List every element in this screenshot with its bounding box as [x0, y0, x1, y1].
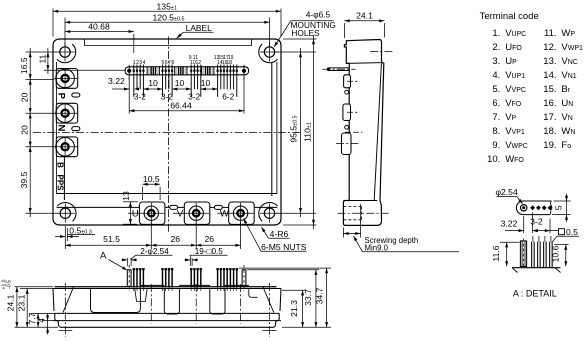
signal pin slot [125, 67, 249, 75]
top view bottom shelf upper line [57, 193, 278, 195]
svg-text:φ2.54: φ2.54 [495, 187, 518, 197]
svg-text:2.: 2. [492, 42, 500, 53]
svg-text:4-φ6.5: 4-φ6.5 [306, 10, 331, 20]
mounting hole top-left [60, 47, 70, 57]
label square 0.5 with leader [559, 229, 565, 235]
side view terminal N bump [343, 104, 351, 121]
detail section square pins [531, 242, 533, 268]
front view round pin 20 [126, 270, 128, 287]
round pin 20 (left end) [127, 69, 131, 73]
svg-text:24.1: 24.1 [6, 294, 16, 311]
round pin 21 (right end) [242, 69, 246, 73]
tab between P and N [72, 93, 80, 97]
side view small circle between P and N [345, 90, 349, 94]
svg-text:51.5: 51.5 [103, 234, 120, 244]
dimension 24.1 side view depth [343, 23, 345, 38]
svg-text:0.5: 0.5 [566, 227, 578, 237]
dimension 51.5 [150, 222, 152, 249]
svg-text:12.: 12. [543, 42, 556, 53]
dimension 10 gap 2 [172, 88, 191, 90]
detail surface line with break marks [512, 267, 561, 269]
front view dimension 24.1 with tolerance [15, 286, 54, 288]
svg-text:10: 10 [201, 78, 211, 88]
dimension 11 pin row offset [44, 69, 125, 71]
side view screw centerline [338, 212, 392, 214]
mounting hole bottom-right [264, 208, 274, 218]
front view dimension 4 [42, 320, 53, 322]
svg-text:11.: 11. [544, 28, 557, 39]
horizontal centerline of module [33, 132, 301, 134]
svg-text:14.: 14. [543, 70, 556, 81]
top view module body outline [53, 39, 281, 225]
dimension 66.44 pin row span [128, 77, 130, 114]
svg-text:10: 10 [175, 78, 185, 88]
svg-text:PPS: PPS [56, 174, 65, 191]
front view round pin 21 [241, 270, 243, 287]
mounting lobe top-right [259, 44, 278, 63]
front view pin tower group 1 [135, 289, 148, 302]
side view terminal B bump [342, 133, 352, 155]
svg-text:11: 11 [38, 54, 48, 63]
front view centerline mounting hole right [269, 283, 271, 337]
detail dimension 10.6 [554, 244, 569, 246]
svg-text:2-φ2.54: 2-φ2.54 [140, 247, 169, 256]
svg-text:6-2: 6-2 [222, 92, 234, 102]
front view pocket 3 [210, 289, 225, 315]
side view hidden screw hole [343, 206, 361, 208]
detail round pin hole [521, 205, 527, 211]
front view dimension 34.7 [239, 267, 331, 269]
left chain extension lines [26, 51, 58, 53]
front view second top line [53, 288, 281, 290]
svg-text:3-2: 3-2 [134, 92, 146, 102]
svg-text:19.: 19. [543, 140, 556, 151]
svg-text:4: 4 [143, 60, 146, 66]
svg-text:Terminal code: Terminal code [480, 11, 539, 22]
dimension 13 terminal height [123, 201, 138, 203]
svg-text:21.3: 21.3 [289, 300, 299, 317]
svg-text:1.: 1. [492, 28, 500, 39]
svg-text:66.44: 66.44 [170, 100, 192, 110]
side view inner wall line [374, 62, 381, 201]
svg-text:33.7: 33.7 [303, 289, 313, 306]
mounting hole top-right [264, 47, 274, 57]
round pin centerline verticals [128, 65, 130, 81]
terminal P block [56, 69, 77, 89]
svg-text:16.: 16. [543, 98, 556, 109]
svg-text:-0.5: -0.5 [7, 280, 13, 289]
svg-text:26: 26 [205, 234, 215, 244]
front view centerline V [195, 284, 197, 324]
detail slot break squiggle [550, 201, 552, 215]
svg-text:24.1: 24.1 [356, 10, 373, 20]
svg-text:6-M5 NUTS: 6-M5 NUTS [261, 242, 307, 252]
side view base block top line [343, 200, 377, 202]
mounting lobe top-left [57, 44, 76, 63]
side view pin centerline [323, 68, 356, 70]
svg-text:3-2: 3-2 [530, 216, 543, 226]
front view dimension 7.7 [31, 312, 55, 314]
mounting lobe bottom-left [57, 202, 76, 221]
top view left rail line below terminal B [63, 157, 65, 200]
detail slot outline with break [516, 201, 551, 215]
svg-text:23.1: 23.1 [16, 294, 26, 311]
detail dimension 11.6 [500, 241, 520, 243]
svg-text:HOLES: HOLES [291, 28, 320, 38]
front view dimension 23.1 [20, 288, 53, 290]
dimension 40.68 hole to pin1 [133, 34, 135, 53]
front view left cap draft line [63, 287, 74, 313]
dimension 26 U-V [195, 222, 197, 249]
svg-text:LABEL: LABEL [186, 23, 212, 33]
terminal W block [229, 202, 255, 224]
terminal N block [56, 103, 77, 123]
front view right bottom extension [282, 326, 331, 328]
dimension 110 +/-1 overall height [283, 38, 317, 40]
side view signal pin profile [328, 67, 350, 69]
svg-text:12: 12 [196, 60, 202, 66]
front view top surface line [55, 286, 277, 288]
svg-text:3.22: 3.22 [501, 219, 518, 229]
svg-text:P: P [56, 93, 67, 100]
svg-text:4.: 4. [492, 70, 500, 81]
svg-text:10: 10 [148, 78, 158, 88]
dimension 3.22 pin pitch [112, 88, 129, 90]
side view centerline tick at mounting hole row [370, 51, 393, 53]
front view dimension 21.3 [282, 289, 306, 291]
svg-text:3.22: 3.22 [108, 76, 125, 86]
svg-text:13: 13 [121, 191, 131, 201]
svg-text:11.6: 11.6 [491, 245, 501, 261]
front view mid body line [55, 312, 280, 314]
signal pins 1-19 [133, 65, 135, 97]
svg-text:N: N [56, 125, 67, 132]
svg-text:8: 8 [171, 60, 174, 66]
svg-text:8.: 8. [492, 126, 500, 137]
svg-text:9.: 9. [492, 140, 500, 151]
connector key block 1 [147, 67, 159, 75]
front view terminal bump W [225, 285, 249, 286]
side view centerline tick at module middle [345, 131, 363, 133]
svg-text:10.6: 10.6 [551, 245, 561, 262]
side view lid bottom line [346, 62, 380, 65]
dimension 10 gap 1 [143, 88, 162, 90]
top view inner rim right [276, 62, 278, 194]
dimension 135 +/-1 overall width [52, 9, 54, 37]
detail dimension 5 [554, 200, 571, 202]
dimension 10.5 terminal width [142, 187, 144, 200]
svg-text:4: 4 [37, 318, 47, 323]
svg-text:19-□0.5: 19-□0.5 [195, 247, 224, 256]
svg-text:V: V [177, 209, 184, 220]
front view square pins [133, 268, 135, 287]
detail square pins as diamonds [530, 205, 535, 210]
svg-text:20: 20 [20, 93, 30, 103]
tab between V and W [214, 205, 222, 209]
left dimension chain line [29, 48, 31, 217]
svg-text:3.: 3. [492, 56, 500, 67]
front view terminal bump V [179, 285, 209, 286]
tab between U and V [170, 205, 178, 209]
svg-text:A : DETAIL: A : DETAIL [513, 288, 557, 298]
svg-text:13.: 13. [543, 56, 556, 67]
front view baseplate outline [55, 313, 279, 327]
terminal B block [56, 137, 77, 157]
front view base step line [53, 320, 281, 322]
front view pocket 2 [164, 289, 179, 315]
front view centerline mounting hole left [64, 283, 66, 337]
svg-text:18.: 18. [543, 126, 556, 137]
top view bottom shelf lower line [57, 206, 278, 208]
svg-text:20: 20 [20, 125, 30, 135]
side view terminal P bump [344, 75, 351, 88]
top view rim step left [83, 39, 85, 45]
svg-text:5: 5 [554, 205, 564, 210]
svg-text:A: A [100, 250, 107, 261]
front view right step outline [249, 289, 258, 298]
svg-text:7.: 7. [492, 112, 500, 123]
svg-text:16.5: 16.5 [19, 57, 29, 74]
mounting lobe bottom-right [259, 202, 278, 221]
svg-text:B: B [56, 162, 65, 168]
svg-text:40.68: 40.68 [88, 21, 110, 31]
svg-text:39.5: 39.5 [19, 171, 29, 188]
front view left outer edge [53, 289, 54, 312]
terminal U block [139, 202, 165, 224]
terminal V block [184, 202, 210, 224]
dimension 9.0 screwing depth [342, 228, 344, 238]
vertical centerline of module [168, 37, 170, 233]
svg-text:18: 18 [227, 60, 233, 66]
svg-text:17.: 17. [543, 112, 556, 123]
connector key block 2 [175, 67, 187, 75]
dimension 120.5 +/-0.5 hole spacing [64, 18, 66, 47]
top view inner rim left [55, 62, 57, 194]
dimension 26 V-W [240, 222, 242, 249]
top view right inner contour line [271, 63, 273, 196]
front view centerline W [240, 284, 242, 324]
top view inner rim top [84, 45, 251, 47]
tab between N and B [72, 127, 80, 131]
top view rim step right [251, 39, 253, 45]
front view pocket 1 [91, 289, 141, 313]
svg-text:6.: 6. [492, 98, 500, 109]
dimension 10 gap 3 [201, 88, 218, 90]
svg-text:U: U [132, 209, 139, 220]
front view centerline U [150, 284, 152, 324]
svg-text:W: W [220, 209, 229, 220]
front view terminal bump U [140, 285, 164, 286]
front view dimension 33.7 [247, 269, 319, 271]
side view small circle between N and B [345, 125, 349, 129]
svg-text:15.: 15. [543, 84, 556, 95]
svg-text:10.: 10. [487, 154, 500, 165]
mounting hole bottom-left [60, 208, 70, 218]
front view right outer edge [280, 289, 281, 312]
svg-text:10.5: 10.5 [143, 174, 160, 184]
svg-text:34.7: 34.7 [314, 287, 324, 304]
side view body outline [343, 40, 383, 226]
svg-text:5.: 5. [492, 84, 500, 95]
front view right cap draft line [263, 287, 274, 313]
dimension 0.5 +/-0.3 [64, 226, 66, 249]
connector key block 3 [202, 67, 214, 75]
svg-text:26: 26 [171, 234, 181, 244]
detail section round pin body [520, 241, 526, 267]
left chain arrows [29, 52, 32, 57]
svg-text:Min9.0: Min9.0 [365, 244, 389, 253]
dimension 95.5 +/-0.5 vertical hole spacing [276, 51, 316, 53]
svg-text:4-R6: 4-R6 [270, 229, 289, 239]
